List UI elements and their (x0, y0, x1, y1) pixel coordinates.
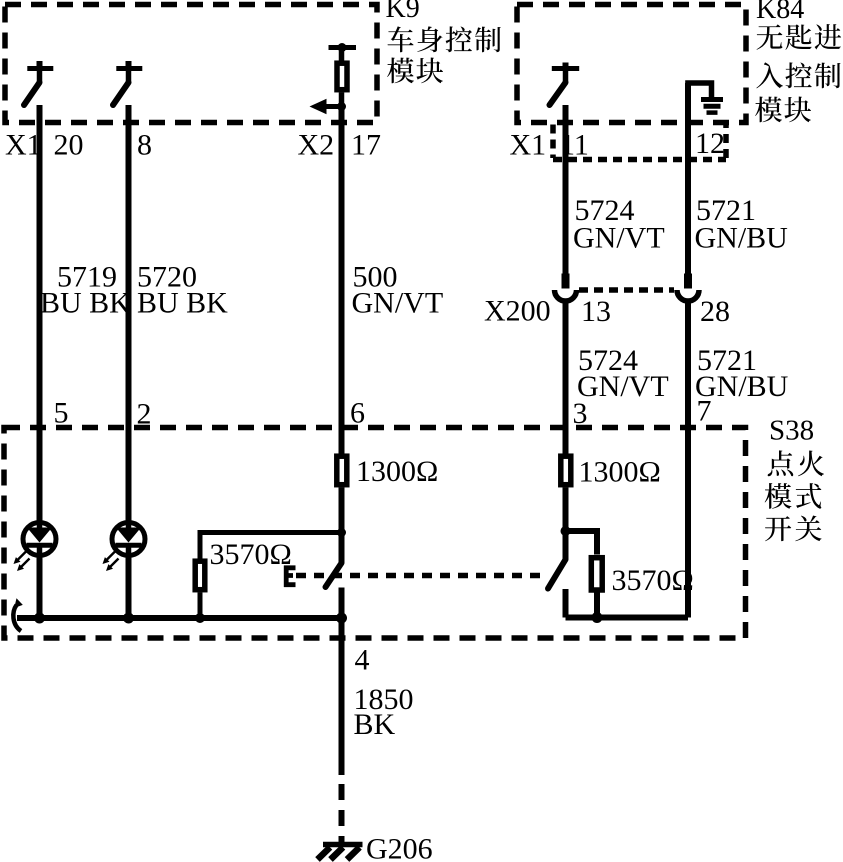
svg-text:1300Ω: 1300Ω (356, 455, 438, 488)
switch blade on wire 3 (548, 560, 566, 589)
svg-text:GN/VT: GN/VT (577, 370, 669, 403)
label 点火 (768, 450, 794, 476)
svg-text:BK: BK (354, 708, 396, 741)
svg-text:12: 12 (695, 127, 725, 160)
wire 1850 BK from S38 pin 4 (339, 638, 345, 775)
connector X1 sub-box of K84 (dashed) (553, 125, 726, 160)
svg-text:3570Ω: 3570Ω (612, 564, 694, 597)
junction dot LED1-bus (34, 613, 45, 624)
svg-text:17: 17 (351, 129, 381, 162)
label 无匙进 (757, 24, 783, 49)
junction node on wire 6 (337, 528, 346, 537)
label 模式 (765, 483, 792, 509)
svg-text:X1: X1 (5, 129, 42, 162)
svg-text:G206: G206 (366, 833, 433, 862)
LED indicator 1 (23, 523, 56, 556)
branch wire to resistor 3570 ohm (left) (200, 533, 342, 559)
module box K84 (dashed) (517, 5, 746, 123)
label 入控制 (756, 62, 783, 88)
svg-text:X1: X1 (510, 129, 547, 162)
connector X200 pin 13 (male pin + female cup) (562, 274, 570, 289)
module box K9 (dashed) (5, 5, 377, 123)
junction dot LED2-bus (123, 613, 134, 624)
svg-text:S38: S38 (769, 415, 814, 447)
mechanical linkage dashed line with E-bracket (296, 573, 548, 579)
left common bus of S38 (17, 615, 342, 621)
junction dot wire6-bus (336, 613, 347, 624)
svg-text:X2: X2 (298, 129, 335, 162)
svg-text:1300Ω: 1300Ω (579, 456, 661, 489)
resistor 3570 ohm (left) (195, 561, 205, 590)
svg-text:11: 11 (560, 129, 589, 162)
svg-text:4: 4 (355, 644, 370, 677)
svg-text:3570Ω: 3570Ω (210, 538, 292, 571)
resistor 3570 ohm (right) (591, 558, 602, 590)
wire 5721 from K84 ground pin 12 down to S38 pin 7 (685, 83, 691, 274)
junction dot resistor3570R-bus (592, 612, 603, 623)
wire 5724 from K84 X1-11 to X200-13 (563, 105, 569, 274)
junction node on wire 3 (561, 526, 571, 536)
LED indicator 2 (112, 523, 145, 556)
svg-text:6: 6 (350, 397, 365, 430)
switch contact 2 in K9 (113, 61, 142, 105)
wire 5720 from K9 X1-8 to LED2 (126, 105, 132, 521)
svg-text:2: 2 (137, 398, 152, 431)
resistor inside K9 (top bar with junction dot) (329, 45, 357, 50)
connector X200 pin 28 (male pin + female cup) (684, 274, 692, 289)
svg-text:GN/VT: GN/VT (573, 222, 665, 255)
svg-text:GN/BU: GN/BU (695, 222, 789, 255)
wire 500 GN/VT from K9 X2-17 down to S38 pin 6 resistor (339, 107, 345, 454)
svg-text:BU BK: BU BK (40, 287, 131, 320)
dashed continuation to G206 (339, 775, 345, 845)
svg-text:7: 7 (697, 395, 712, 428)
label 车身控制 (388, 26, 414, 52)
wire from LED2 to bus (126, 557, 132, 618)
label 模块 (K9) (387, 57, 414, 83)
junction dot below K9 resistor (337, 102, 346, 111)
switch blade on wire 6 (326, 563, 342, 587)
wire 5719 from K9 X1-20 to LED1 (37, 105, 43, 521)
module box S38 (dashed) (4, 428, 746, 639)
ground G206 (chassis) (323, 842, 363, 848)
svg-text:3: 3 (573, 397, 588, 430)
svg-text:13: 13 (581, 295, 611, 328)
switch contact in K84 (550, 63, 580, 106)
svg-text:K9: K9 (386, 0, 420, 24)
resistor 1300 ohm (left, on wire 6) (337, 456, 347, 485)
svg-text:20: 20 (54, 129, 84, 162)
wire 5724 from X200-13 to S38 pin 3 (563, 304, 569, 454)
svg-text:5: 5 (54, 397, 69, 430)
junction dot resistor3570L-bus (195, 613, 205, 623)
label 模块 (K84) (755, 96, 782, 122)
svg-text:K84: K84 (756, 0, 804, 25)
ground symbol inside K84 (685, 83, 711, 98)
resistor 1300 ohm (right, on wire 3) (561, 456, 571, 485)
branch to resistor 3570 ohm (right) (566, 531, 598, 555)
switch contact 1 in K9 (24, 61, 53, 105)
dashed tie line between X200 pins (579, 287, 674, 293)
svg-text:8: 8 (137, 129, 152, 162)
svg-text:GN/VT: GN/VT (352, 287, 444, 320)
svg-text:BU BK: BU BK (137, 287, 228, 320)
label 开关 (765, 516, 791, 541)
wire from resistor to node (339, 488, 345, 564)
svg-text:28: 28 (700, 295, 730, 328)
wire from LED1 to bus (37, 557, 43, 618)
output arrow (points left) below resistor in K9 (325, 104, 342, 109)
rotary wiper curved arrow at left bus end (13, 605, 21, 631)
right bus connecting wire 3 branch to wire 7 (566, 615, 689, 621)
svg-text:X200: X200 (484, 295, 551, 328)
